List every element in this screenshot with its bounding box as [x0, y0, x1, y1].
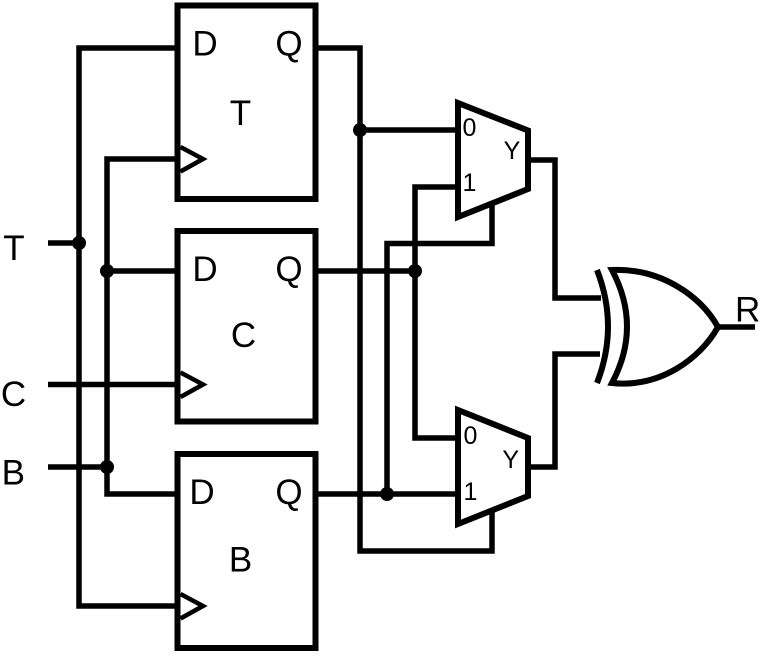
M1 body: [458, 103, 528, 217]
U1 body: [178, 6, 316, 200]
svg-text:T: T: [3, 229, 24, 268]
D flip-flop U1 (T): [178, 6, 316, 200]
junction: T.Q branch: [353, 123, 367, 137]
svg-text:B: B: [229, 541, 252, 580]
svg-text:1: 1: [463, 169, 477, 197]
wire: C.Q bus to top mux input 1 and bottom mux input 0: [415, 187, 458, 438]
svg-text:D: D: [192, 25, 217, 64]
svg-text:0: 0: [463, 114, 477, 142]
wire: C.Q to vertical bus: [316, 268, 416, 274]
XOR gate G1: [597, 270, 718, 384]
wire: XOR output R: [718, 324, 755, 330]
svg-text:Q: Q: [275, 473, 302, 512]
junction: bus B to C.D: [100, 264, 114, 278]
wire: branch bus B to C.D: [107, 268, 178, 274]
svg-text:B: B: [2, 454, 25, 493]
svg-text:D: D: [189, 473, 214, 512]
wire: M2 Y output to XOR bottom input: [528, 354, 600, 467]
svg-text:Q: Q: [275, 250, 302, 289]
junction: input B on bus B: [100, 460, 114, 474]
junction: C.Q branch: [408, 264, 422, 278]
wire: branch T.Q to top mux input 0: [360, 127, 458, 133]
multiplexer M1 (top): [458, 103, 528, 217]
multiplexer M2 (bottom): [458, 410, 528, 524]
wire: input T tick to vertical bus A: [48, 240, 79, 246]
wire: B.Q branch up to top mux select: [387, 204, 492, 494]
U3 body: [178, 454, 316, 648]
M2 body: [458, 410, 528, 524]
U2 clock triangle: [181, 373, 204, 398]
svg-text:0: 0: [464, 422, 478, 450]
svg-text:C: C: [231, 316, 256, 355]
svg-text:D: D: [192, 250, 217, 289]
svg-text:Q: Q: [275, 25, 302, 64]
svg-text:1: 1: [464, 478, 478, 506]
wire: M1 Y output to XOR top input: [528, 160, 601, 298]
wire: input B tick to bus B: [48, 464, 107, 470]
wire: bus B (T clock, down to B.D): [107, 159, 178, 494]
svg-text:R: R: [735, 291, 760, 330]
svg-text:Y: Y: [502, 446, 519, 474]
junction: B.Q branch: [380, 487, 394, 501]
D flip-flop U3 (B): [178, 454, 316, 648]
wire: T.Q to mux select (bottom) and mux0 input: [316, 48, 493, 551]
D flip-flop U2 (C): [178, 231, 316, 422]
svg-text:Y: Y: [504, 137, 521, 165]
wire: bus A (T.D feed down to B clock): [79, 48, 178, 606]
G1 input arc: [597, 270, 608, 383]
wire: input C to C clock: [48, 382, 178, 388]
U3 clock triangle: [181, 594, 204, 619]
junction: input T on bus A: [72, 236, 86, 250]
svg-text:C: C: [1, 375, 26, 414]
U2 body: [178, 231, 316, 422]
G1 body: [612, 270, 718, 384]
U1 clock triangle: [181, 147, 204, 172]
svg-text:T: T: [230, 94, 251, 133]
wire: B.Q to bottom mux input 1: [316, 491, 459, 497]
